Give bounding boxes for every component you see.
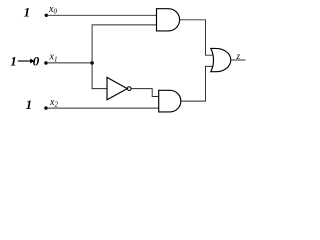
junction dot x1 branch [90,61,94,65]
wire x0 to AND1 top input [46,14,156,16]
wire inverter output to AND2 top input [131,89,159,97]
junction dot x2 [44,106,47,109]
junction dot x0 [45,14,48,17]
wire branch up to AND1 lower input [92,25,156,63]
svg-text:1: 1 [24,5,31,20]
wire OR output [231,59,246,61]
svg-text:1: 1 [10,53,17,68]
AND gate U2 (bottom) [159,90,181,112]
junction dot x1 [44,61,47,64]
wire x1 to branch point [46,62,92,64]
wire branch down to inverter input [92,63,107,89]
wire AND2 output to OR input 2 [181,66,214,101]
wire x2 to AND2 bottom input [46,107,159,109]
svg-text:0: 0 [33,53,40,68]
AND gate U1 (top) [157,9,180,31]
inverter U3 bubble [127,87,131,91]
svg-text:z: z [236,51,241,61]
inverter U3 triangle [107,77,127,99]
OR gate U4 [211,48,231,71]
svg-text:1: 1 [26,97,32,112]
wire AND1 output to OR input 1 [180,20,214,55]
